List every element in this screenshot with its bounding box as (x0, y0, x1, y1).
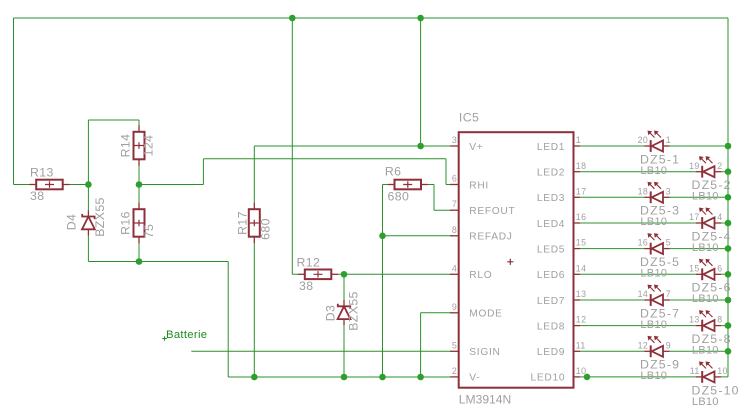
svg-text:124: 124 (141, 135, 155, 157)
svg-text:13: 13 (689, 315, 700, 325)
svg-text:16: 16 (576, 212, 587, 222)
svg-text:R6: R6 (385, 164, 402, 178)
svg-text:10: 10 (576, 366, 587, 376)
svg-text:SIGIN: SIGIN (469, 347, 500, 358)
svg-text:RLO: RLO (469, 270, 492, 281)
svg-text:3: 3 (452, 135, 457, 145)
svg-text:4: 4 (452, 263, 457, 273)
svg-text:LB10: LB10 (692, 293, 719, 305)
svg-text:LED8: LED8 (537, 321, 565, 332)
svg-text:R12: R12 (297, 255, 321, 269)
svg-text:LB10: LB10 (640, 319, 667, 331)
svg-text:6: 6 (452, 174, 457, 184)
svg-text:R14: R14 (118, 134, 132, 158)
svg-text:LED3: LED3 (537, 193, 565, 204)
svg-text:LM3914N: LM3914N (459, 392, 511, 406)
svg-text:680: 680 (258, 218, 272, 240)
svg-text:LED6: LED6 (537, 270, 565, 281)
svg-text:Batterie: Batterie (166, 329, 207, 341)
svg-text:LB10: LB10 (640, 165, 667, 177)
svg-text:D3: D3 (324, 305, 338, 322)
svg-text:13: 13 (576, 289, 587, 299)
svg-text:LED2: LED2 (537, 168, 565, 179)
svg-text:V-: V- (469, 373, 480, 384)
svg-text:LB10: LB10 (692, 396, 719, 408)
svg-text:75: 75 (142, 224, 156, 238)
svg-text:LED7: LED7 (537, 296, 565, 307)
svg-text:15: 15 (689, 263, 700, 273)
svg-text:BZX55: BZX55 (93, 197, 107, 237)
svg-text:LED5: LED5 (537, 244, 565, 255)
svg-text:LB10: LB10 (692, 345, 719, 357)
svg-text:1: 1 (576, 135, 581, 145)
svg-text:LB10: LB10 (640, 216, 667, 228)
svg-text:8: 8 (717, 315, 722, 325)
svg-text:8: 8 (452, 225, 457, 235)
svg-text:LED1: LED1 (537, 142, 565, 153)
svg-text:R16: R16 (118, 211, 132, 235)
svg-text:3: 3 (666, 186, 671, 196)
svg-text:38: 38 (299, 279, 313, 293)
svg-text:9: 9 (452, 302, 457, 312)
svg-text:D4: D4 (65, 214, 79, 231)
svg-text:RHI: RHI (469, 180, 489, 191)
svg-text:18: 18 (638, 186, 649, 196)
svg-text:LB10: LB10 (640, 370, 667, 382)
svg-text:LB10: LB10 (640, 268, 667, 280)
svg-text:REFADJ: REFADJ (469, 232, 512, 243)
svg-text:LED4: LED4 (537, 219, 565, 230)
svg-text:11: 11 (690, 366, 700, 376)
svg-text:5: 5 (452, 340, 457, 350)
svg-text:2: 2 (452, 366, 457, 376)
svg-text:LED9: LED9 (537, 347, 565, 358)
svg-text:MODE: MODE (469, 309, 502, 320)
svg-text:5: 5 (666, 238, 671, 248)
svg-text:19: 19 (689, 161, 700, 171)
svg-text:7: 7 (666, 289, 671, 299)
svg-text:V+: V+ (469, 142, 483, 153)
svg-text:12: 12 (576, 315, 587, 325)
svg-text:BZX55: BZX55 (347, 291, 361, 331)
svg-text:17: 17 (576, 186, 587, 196)
svg-text:LB10: LB10 (692, 242, 719, 254)
svg-text:16: 16 (638, 238, 649, 248)
svg-text:2: 2 (717, 161, 722, 171)
svg-text:9: 9 (666, 340, 671, 350)
svg-text:18: 18 (576, 161, 587, 171)
svg-text:6: 6 (717, 263, 722, 273)
svg-text:14: 14 (576, 263, 587, 273)
svg-text:4: 4 (717, 212, 722, 222)
svg-text:LB10: LB10 (692, 191, 719, 203)
svg-text:680: 680 (388, 189, 410, 203)
svg-text:20: 20 (638, 135, 649, 145)
svg-text:7: 7 (452, 199, 457, 209)
svg-text:12: 12 (638, 340, 649, 350)
svg-text:10: 10 (717, 366, 728, 376)
svg-text:R17: R17 (235, 211, 249, 235)
svg-text:1: 1 (666, 135, 671, 145)
svg-text:LED10: LED10 (531, 373, 566, 384)
svg-text:11: 11 (576, 340, 586, 350)
svg-text:REFOUT: REFOUT (469, 206, 515, 217)
svg-text:38: 38 (30, 189, 44, 203)
svg-text:IC5: IC5 (459, 111, 479, 125)
svg-text:15: 15 (576, 238, 587, 248)
svg-text:17: 17 (689, 212, 700, 222)
svg-text:14: 14 (638, 289, 649, 299)
svg-text:R13: R13 (30, 165, 54, 179)
